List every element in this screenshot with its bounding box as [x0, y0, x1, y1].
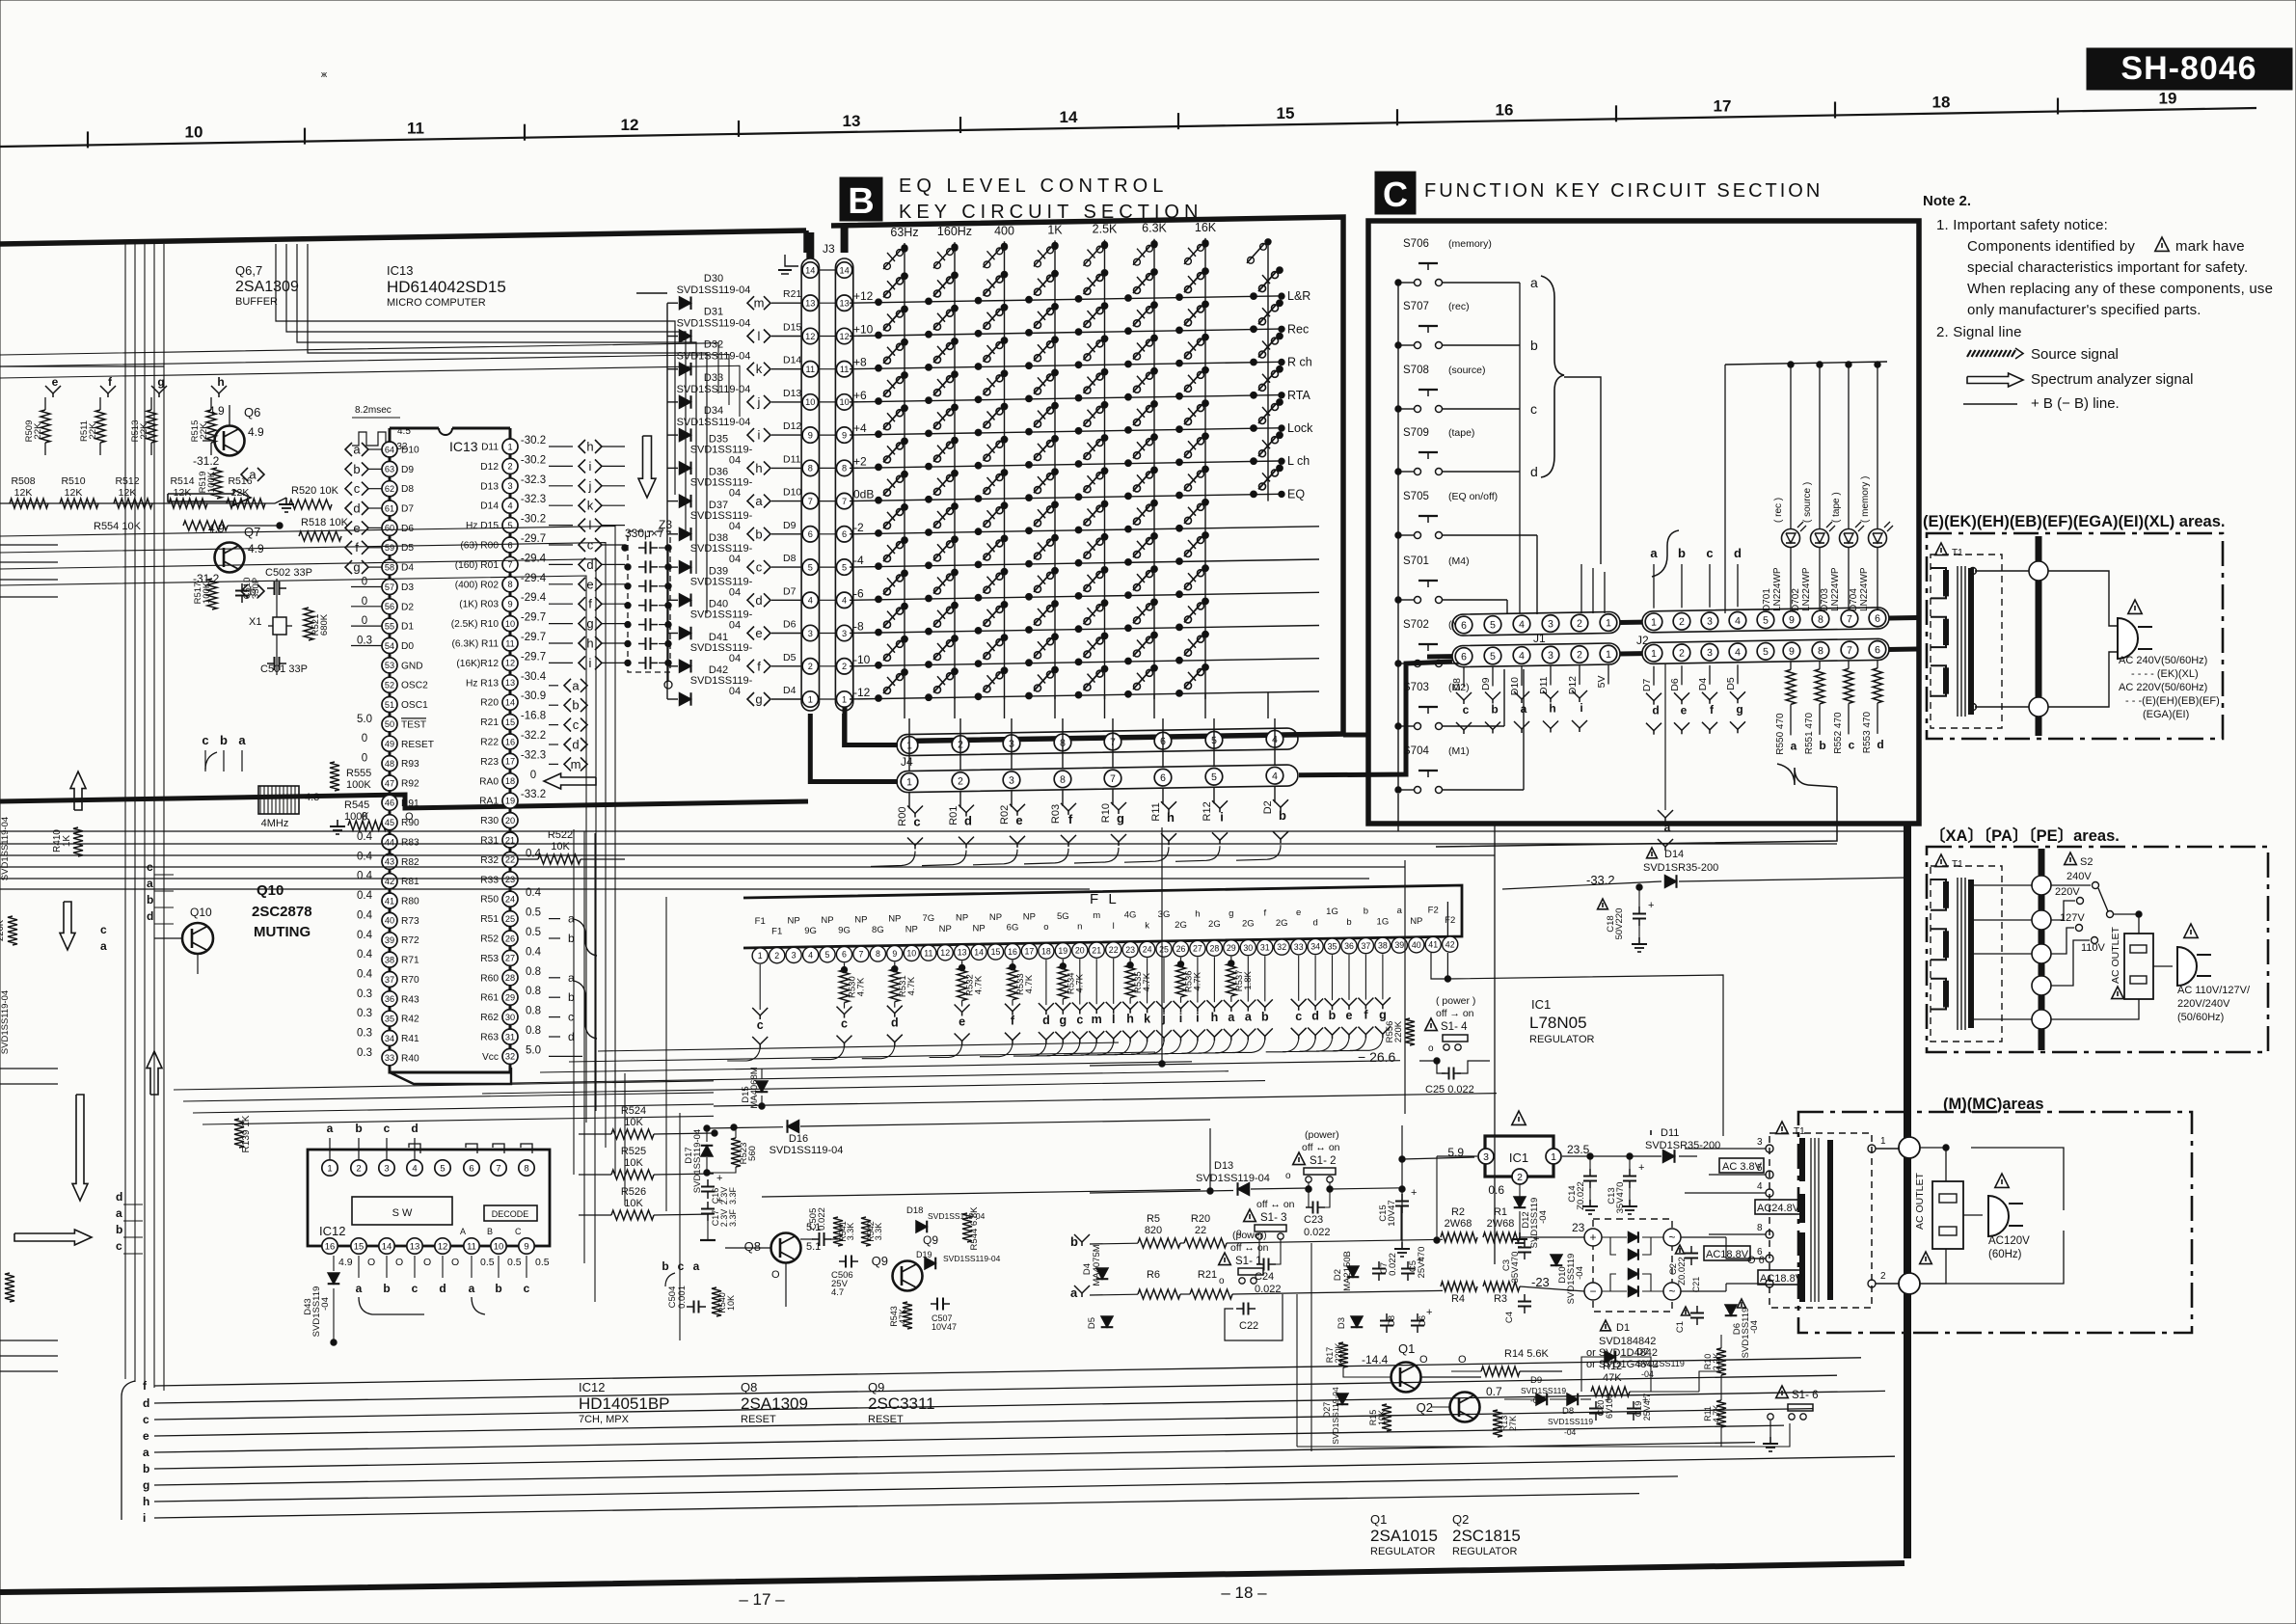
- junction circle tap: [2032, 1010, 2051, 1029]
- svg-text:m: m: [754, 296, 765, 311]
- svg-text:3: 3: [384, 1163, 389, 1174]
- svg-text:or SVD1G4842: or SVD1G4842: [1586, 1359, 1659, 1370]
- FL pin 22: [1106, 942, 1121, 958]
- svg-text:Note 2.: Note 2.: [1923, 193, 1971, 209]
- svg-text:19: 19: [505, 797, 515, 806]
- wire thick J2 right row1: [1889, 615, 1917, 621]
- IC13 pin 45 R90: [382, 815, 397, 830]
- J2 pin 1 row2: [1645, 644, 1662, 662]
- wire T1 pin8: [1709, 1233, 1766, 1235]
- svg-text:e: e: [755, 626, 762, 640]
- svg-text:0.8: 0.8: [526, 966, 541, 978]
- IC13 pin 50 TEST: [382, 717, 397, 732]
- diode D10: [1551, 1255, 1562, 1265]
- svg-text:7: 7: [808, 497, 813, 506]
- svg-text:47K: 47K: [1603, 1372, 1622, 1384]
- svg-text:S2: S2: [2080, 856, 2093, 868]
- wire to J3: [771, 566, 802, 568]
- svg-text:22K: 22K: [33, 422, 43, 440]
- svg-text:31: 31: [1260, 943, 1270, 953]
- svg-text:c: c: [913, 815, 920, 829]
- svg-text:R510: R510: [61, 475, 85, 487]
- svg-text:9: 9: [524, 1241, 528, 1252]
- svg-text:8: 8: [524, 1163, 528, 1174]
- svg-text:J2: J2: [1636, 634, 1649, 647]
- svg-text:m: m: [1093, 910, 1100, 921]
- svg-text:7: 7: [507, 560, 512, 570]
- svg-text:400: 400: [994, 224, 1014, 237]
- svg-text:R02: R02: [999, 805, 1011, 825]
- IC13 pin 7 (160) R01: [502, 556, 518, 572]
- J3 pin 7 left: [802, 493, 818, 508]
- wire to J3: [771, 401, 802, 403]
- capacitor C19 25V4.7: [1633, 1401, 1634, 1409]
- wire LED: [1877, 365, 1878, 528]
- svg-text:h: h: [1167, 810, 1175, 825]
- svg-text:o: o: [1219, 1276, 1225, 1286]
- wire FL out: [1181, 1041, 1214, 1053]
- plug (E areas): [2118, 618, 2138, 659]
- svg-text:F1: F1: [755, 916, 766, 927]
- svg-text:+ B (− B) line.: + B (− B) line.: [2031, 395, 2120, 412]
- svg-text:+10: +10: [853, 323, 874, 337]
- svg-text:44: 44: [385, 837, 394, 847]
- svg-text:1: 1: [906, 776, 912, 788]
- svg-text:Q6: Q6: [244, 405, 260, 420]
- resistor R542 3.3K: [861, 1217, 871, 1246]
- J3 pin 10 left: [802, 394, 818, 410]
- svg-text:13: 13: [839, 299, 849, 309]
- svg-text:b: b: [1329, 1009, 1337, 1022]
- svg-text:AC 110V/127V/: AC 110V/127V/: [2177, 985, 2251, 996]
- key switch: [926, 298, 932, 305]
- svg-text:32: 32: [505, 1052, 515, 1062]
- diode D9: [1536, 1394, 1547, 1405]
- FL pin 35: [1324, 938, 1339, 954]
- svg-text:2G: 2G: [1242, 919, 1255, 930]
- FL pin 37: [1358, 938, 1373, 954]
- IC13 pin 2 D12: [502, 458, 518, 474]
- FL pin 33: [1291, 939, 1307, 955]
- wire Vcc: [549, 1055, 582, 1057]
- svg-text:59: 59: [385, 543, 394, 553]
- svg-text:38: 38: [1378, 941, 1388, 951]
- svg-text:4: 4: [1519, 650, 1525, 662]
- svg-text:7: 7: [858, 949, 863, 959]
- net f FL: [1005, 1004, 1020, 1012]
- wire bundle mid nested: [0, 343, 718, 393]
- svg-text:04: 04: [729, 686, 741, 697]
- wire FL out: [1081, 1042, 1114, 1055]
- bridge terminal minus: [1584, 1283, 1602, 1300]
- svg-text:b: b: [572, 698, 579, 713]
- svg-text:5: 5: [1763, 615, 1769, 627]
- svg-text:l: l: [1113, 921, 1115, 932]
- svg-text:e: e: [1015, 813, 1022, 827]
- wire FL out: [930, 1045, 962, 1058]
- svg-text:c: c: [412, 1282, 419, 1295]
- net c FL: [837, 1007, 852, 1015]
- key switch: [926, 397, 932, 404]
- svg-text:7: 7: [842, 497, 847, 506]
- FL pin 9: [887, 946, 903, 961]
- FL pin 6: [836, 947, 851, 962]
- wire bundle below IC13: [174, 1081, 714, 1090]
- svg-text:c: c: [756, 560, 763, 575]
- net h: [211, 386, 227, 393]
- svg-text:R21: R21: [480, 717, 499, 728]
- FL pin 23: [1122, 942, 1138, 958]
- key switch: [1125, 460, 1132, 467]
- net k FL: [1140, 1001, 1155, 1009]
- svg-text:g: g: [755, 692, 762, 707]
- svg-text:0dB: 0dB: [853, 488, 874, 501]
- wire row -12: [850, 691, 1319, 699]
- switch blade S2: [2098, 888, 2108, 911]
- net l: [579, 519, 585, 532]
- wire to J3: [771, 336, 802, 338]
- svg-text:d: d: [143, 1396, 149, 1410]
- net m: [564, 757, 571, 771]
- svg-text:9G: 9G: [838, 926, 851, 936]
- net k: [747, 363, 754, 376]
- svg-text:T1: T1: [1952, 859, 1963, 870]
- plug M: [1988, 1196, 2009, 1236]
- wire 5.9: [1402, 1157, 1474, 1159]
- FL pin 5: [820, 947, 835, 962]
- svg-text:~: ~: [1668, 1285, 1675, 1298]
- svg-text:0.8: 0.8: [526, 986, 541, 997]
- svg-text:R1: R1: [1494, 1206, 1507, 1218]
- svg-text:62: 62: [385, 484, 394, 494]
- key switch function row: [1251, 458, 1257, 465]
- svg-text:GND: GND: [401, 661, 423, 671]
- svg-text:14: 14: [382, 1241, 392, 1252]
- svg-text:SVD1SS119-04: SVD1SS119-04: [692, 1129, 703, 1193]
- svg-text:6: 6: [1160, 772, 1166, 784]
- J3 pin 3 right: [836, 625, 851, 640]
- svg-text:Q6,7: Q6,7: [235, 263, 262, 278]
- ruler tick: [1615, 105, 1617, 122]
- key switch: [1026, 330, 1033, 337]
- svg-text:3: 3: [507, 481, 512, 491]
- svg-text:220K: 220K: [1393, 1020, 1404, 1042]
- svg-text:b: b: [1819, 739, 1825, 752]
- wire -26.6: [1090, 1061, 1400, 1066]
- svg-text:2.5K: 2.5K: [1093, 223, 1118, 236]
- svg-text:D7: D7: [1641, 679, 1653, 692]
- wire J2 up: [1737, 564, 1739, 607]
- IC13 pin 3 D13: [502, 478, 518, 494]
- J2 pin 2 row1: [1673, 612, 1690, 630]
- svg-text:0.4: 0.4: [357, 871, 373, 882]
- svg-text:D4: D4: [401, 563, 414, 574]
- svg-text:D13: D13: [1214, 1160, 1233, 1172]
- upper left box bottom border: [0, 795, 808, 808]
- svg-text:36: 36: [1344, 941, 1354, 951]
- svg-text:1: 1: [808, 694, 813, 704]
- key switch: [1075, 362, 1082, 368]
- svg-text:A: A: [460, 1227, 466, 1236]
- key switch: [1176, 558, 1183, 565]
- IC13 pin 6 (63) R00: [502, 537, 518, 553]
- wire C22 loop: [1225, 1294, 1283, 1340]
- resistor R533 4.7K: [1012, 961, 1013, 967]
- svg-text:SVD1SR35-200: SVD1SR35-200: [1643, 862, 1718, 874]
- J3 link: [819, 401, 835, 403]
- IC13 pin 26 R52: [502, 931, 518, 946]
- svg-text:LN224WP: LN224WP: [1772, 567, 1783, 611]
- J3 pin 7 right: [836, 493, 851, 508]
- capacitor C506 25V 4.7: [839, 1260, 846, 1262]
- svg-text:-29.4: -29.4: [521, 592, 547, 604]
- svg-text:g: g: [1229, 908, 1233, 919]
- svg-text:h: h: [1211, 1011, 1219, 1024]
- key switch: [926, 430, 932, 437]
- FL pin 2: [770, 948, 785, 963]
- svg-text:C23: C23: [1304, 1214, 1323, 1226]
- svg-text:1: 1: [758, 951, 763, 961]
- wire C vertical: [1580, 564, 1582, 613]
- J2 pin 6 row1: [1869, 609, 1886, 627]
- wire J4 column: [954, 697, 956, 718]
- capacitor C16 2.3V 3.3F: [707, 1179, 709, 1187]
- key switch: [1176, 657, 1183, 663]
- wire FL out: [1047, 1043, 1080, 1056]
- svg-text:R20: R20: [1191, 1213, 1210, 1225]
- svg-text:04: 04: [729, 620, 741, 632]
- svg-text:-29.7: -29.7: [521, 612, 546, 624]
- svg-text:220K: 220K: [0, 1278, 3, 1300]
- wire bundle FL letters verticals: [605, 1054, 607, 1148]
- svg-text:35V470: 35V470: [1615, 1182, 1626, 1214]
- key switch: [1026, 363, 1033, 369]
- wire Q8 bus: [762, 1190, 1201, 1198]
- IC12 bottom nets a b c d a b c: [358, 1256, 360, 1278]
- svg-text:2: 2: [356, 1163, 361, 1174]
- svg-text:14: 14: [805, 265, 815, 275]
- svg-text:42: 42: [1445, 939, 1455, 949]
- wire C15 down: [1400, 1205, 1402, 1240]
- net a: [549, 977, 560, 979]
- svg-text:RA1: RA1: [479, 797, 499, 807]
- IC13 pin 37 R70: [382, 972, 397, 988]
- svg-text:a: a: [249, 468, 257, 482]
- svg-text:HD614042SD15: HD614042SD15: [387, 278, 506, 296]
- svg-text:AC24.8V: AC24.8V: [1757, 1203, 1800, 1214]
- svg-text:c: c: [587, 538, 594, 553]
- capacitor C8: [1386, 1313, 1388, 1321]
- svg-text:04: 04: [729, 521, 741, 532]
- wire ac18 path: [1726, 1237, 1766, 1259]
- svg-text:5: 5: [842, 562, 847, 572]
- wire FL f2 up: [1446, 902, 1448, 935]
- svg-text:T1: T1: [1952, 548, 1963, 558]
- svg-text:9: 9: [1789, 614, 1795, 626]
- svg-text:13: 13: [958, 948, 967, 958]
- svg-text:R520 10K: R520 10K: [291, 485, 339, 497]
- wire thick B box to C box: [1343, 733, 1368, 738]
- svg-text:c: c: [568, 1011, 574, 1024]
- svg-text:4.7K: 4.7K: [974, 975, 985, 994]
- wire J1 drop: [1607, 665, 1609, 685]
- net d: [1646, 693, 1661, 701]
- IC13 pin 29 R61: [502, 989, 518, 1005]
- svg-text:+: +: [1648, 900, 1654, 911]
- svg-text:b: b: [1346, 917, 1351, 928]
- key switch: [1176, 294, 1183, 301]
- diode D16: [788, 1121, 799, 1133]
- J3 pin 10 right: [836, 394, 851, 410]
- svg-text:10: 10: [494, 1241, 504, 1252]
- svg-text:40: 40: [1412, 940, 1421, 950]
- hollow arrow down left: [60, 902, 75, 950]
- J4 pin 6 row2: [1154, 769, 1172, 786]
- svg-text:c: c: [1463, 703, 1470, 717]
- svg-text:a: a: [353, 443, 361, 457]
- svg-text:31: 31: [505, 1032, 515, 1042]
- net i: [579, 656, 585, 669]
- wire J4 column: [1054, 696, 1056, 719]
- key switch: [1075, 659, 1082, 665]
- FL pin 18: [1039, 943, 1054, 959]
- net a: [564, 679, 571, 692]
- net b: [564, 698, 571, 712]
- capacitor C1: [1696, 1306, 1698, 1313]
- svg-text:9G: 9G: [804, 926, 817, 936]
- svg-text:D8: D8: [1451, 678, 1463, 691]
- IC13 pin 23 R33: [502, 872, 518, 887]
- svg-text:R91: R91: [401, 798, 419, 809]
- wire Q8 Q9 area: [785, 1263, 787, 1307]
- FL pin 30: [1240, 940, 1256, 956]
- svg-text:e: e: [1346, 1009, 1353, 1022]
- wire tap: [1973, 919, 2032, 921]
- svg-text:4: 4: [1272, 771, 1278, 782]
- wire J4 to bus: [922, 851, 966, 866]
- svg-text:C: C: [515, 1227, 522, 1236]
- wire T1 pin1 to junction: [1876, 1148, 1899, 1150]
- svg-text:17: 17: [1025, 947, 1035, 957]
- capacitor Z3 7: [638, 662, 646, 663]
- key switch: [876, 332, 882, 338]
- IC12 pin 11: [464, 1238, 479, 1254]
- svg-text:EQ LEVEL CONTROL: EQ LEVEL CONTROL: [899, 176, 1168, 197]
- svg-text:D18: D18: [906, 1205, 923, 1216]
- resistor R550 470: [1790, 662, 1792, 669]
- transformer T1 (XA areas): [1931, 866, 2002, 1042]
- svg-text:SVD1SS119-04: SVD1SS119-04: [677, 417, 751, 428]
- diode D15 MA4068M: [756, 1081, 768, 1092]
- svg-text:1K: 1K: [1047, 223, 1063, 236]
- net g: [747, 692, 754, 706]
- IC13 pin 59 D5: [382, 540, 397, 555]
- IC13 pin 43 R82: [382, 853, 397, 869]
- svg-text:D12: D12: [783, 420, 801, 432]
- svg-text:0.5: 0.5: [480, 1257, 495, 1268]
- svg-text:12K: 12K: [174, 487, 192, 499]
- svg-text:RESET: RESET: [401, 740, 434, 750]
- IC13 pin 44 R83: [382, 834, 397, 850]
- svg-text:2. Signal line: 2. Signal line: [1936, 324, 2022, 340]
- wire power row2: [1090, 1293, 1138, 1296]
- svg-text:R3: R3: [1494, 1293, 1507, 1305]
- net e: [579, 578, 585, 591]
- wire IC13 bottom: [390, 1068, 511, 1084]
- svg-text:-30.2: -30.2: [521, 514, 546, 526]
- wire to plug E: [2048, 571, 2118, 626]
- wire switch out: [1462, 534, 1537, 536]
- svg-text:Hz R13: Hz R13: [466, 678, 499, 689]
- net d FL: [1308, 999, 1323, 1007]
- hollow arrow left RA0: [544, 773, 596, 789]
- net c: [907, 806, 923, 814]
- svg-text:AC OUTLET: AC OUTLET: [1914, 1172, 1926, 1230]
- svg-text:MA2150B: MA2150B: [1342, 1251, 1353, 1291]
- key switch: [1075, 559, 1082, 566]
- IC13 pin 17 R23: [502, 753, 518, 769]
- svg-text:IC1: IC1: [1509, 1150, 1528, 1165]
- svg-text:( memory ): ( memory ): [1860, 476, 1871, 523]
- svg-text:55: 55: [385, 622, 394, 632]
- key switch: [1075, 626, 1082, 633]
- svg-text:16: 16: [1496, 100, 1514, 119]
- svg-text:L78N05: L78N05: [1529, 1014, 1587, 1032]
- IC13 pin 8 (400) R02: [502, 577, 518, 592]
- resistor R556 220K: [1405, 1018, 1415, 1045]
- svg-text:O: O: [367, 1257, 375, 1268]
- svg-text:R552 470: R552 470: [1833, 712, 1844, 754]
- net b out: [241, 584, 248, 598]
- svg-text:g: g: [1736, 702, 1742, 716]
- wire row +8: [850, 362, 1280, 368]
- key switch: [926, 463, 932, 470]
- svg-text:11: 11: [806, 365, 816, 374]
- svg-text:SVD1SS119-: SVD1SS119-: [690, 477, 753, 489]
- diode D3: [1351, 1316, 1363, 1327]
- svg-text:D5: D5: [1087, 1317, 1097, 1329]
- svg-text:15: 15: [354, 1241, 365, 1252]
- svg-text:– 17 –: – 17 –: [739, 1590, 785, 1609]
- wire D7 loop: [1581, 1357, 1605, 1392]
- svg-text:j: j: [588, 478, 592, 493]
- J1 pin 1 row2: [1600, 645, 1617, 663]
- capacitor C23 0.022: [1306, 1206, 1313, 1208]
- svg-text:C22: C22: [1239, 1320, 1258, 1332]
- svg-text:REGULATOR: REGULATOR: [1370, 1546, 1435, 1557]
- svg-text:-12: -12: [853, 686, 871, 699]
- svg-text:R555: R555: [346, 768, 371, 779]
- svg-text:e: e: [1296, 907, 1301, 918]
- hollow arrow down 3: [72, 1095, 88, 1201]
- svg-text:c: c: [678, 1259, 685, 1273]
- net c FL: [1291, 999, 1307, 1007]
- wire IC13 pin: [351, 586, 382, 588]
- svg-text:– 18 –: – 18 –: [1221, 1583, 1267, 1602]
- svg-text:Q2: Q2: [1417, 1400, 1433, 1415]
- svg-text:50V220: 50V220: [1614, 908, 1625, 940]
- wire row -6: [850, 592, 1319, 600]
- IC13 pin 4 D14: [502, 498, 518, 513]
- svg-text:h: h: [586, 636, 593, 651]
- hollow arrow right 2: [14, 1230, 92, 1245]
- svg-text:SVD1SS119-04: SVD1SS119-04: [943, 1254, 1001, 1263]
- svg-text:-30.2: -30.2: [521, 454, 546, 466]
- net h: [1543, 691, 1558, 699]
- wire FL drop: [1197, 958, 1199, 1003]
- svg-text:NP: NP: [888, 914, 901, 925]
- key switch: [876, 497, 882, 503]
